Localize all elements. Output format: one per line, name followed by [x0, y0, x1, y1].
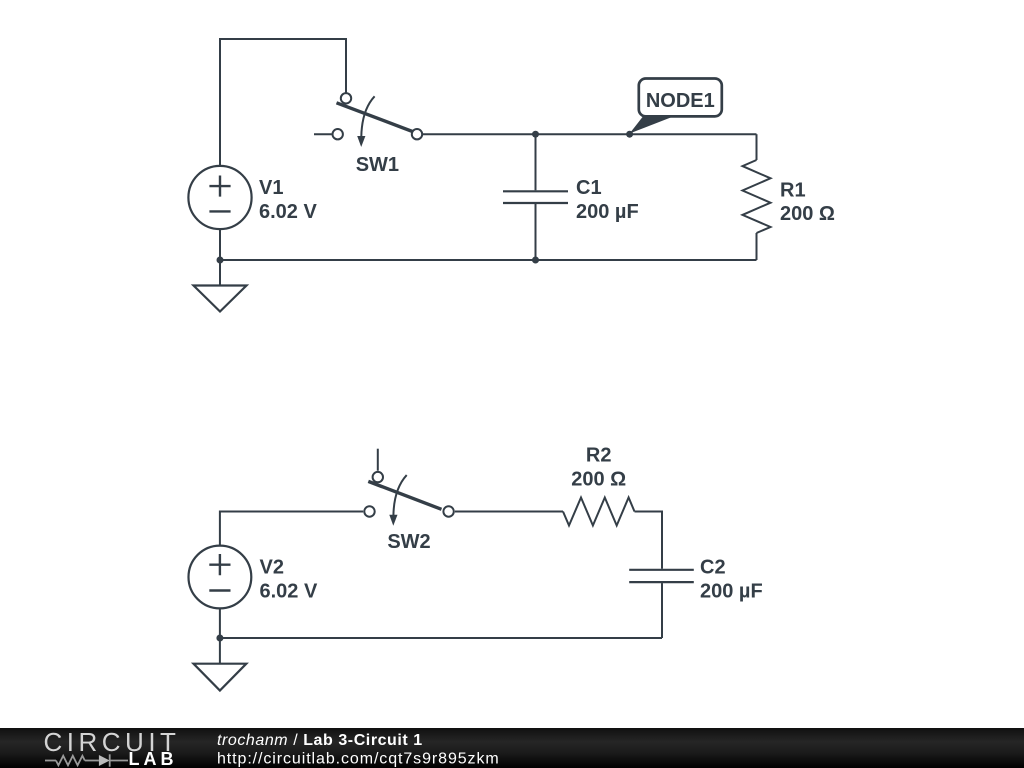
svg-text:http://circuitlab.com/cqt7s9r8: http://circuitlab.com/cqt7s9r895zkm	[217, 751, 500, 768]
switch SW2	[364, 472, 454, 526]
junction node at C1 top	[532, 131, 539, 138]
voltage source V1	[188, 166, 251, 229]
wire ground 2 lead	[219, 638, 221, 664]
wire C2 bottom lead	[661, 583, 663, 638]
resistor R2	[563, 498, 635, 526]
logo mini-circuit wire with resistor and diode	[45, 754, 128, 766]
junction node at V1 bottom	[217, 257, 224, 264]
wire SW1 pole to R1 top corner	[422, 133, 756, 135]
junction node at V2 bottom	[216, 635, 223, 642]
svg-text:LAB: LAB	[129, 749, 178, 768]
svg-text:trochanm / Lab 3-Circuit 1: trochanm / Lab 3-Circuit 1	[217, 732, 423, 749]
wire V2 top to SW2 left throw	[220, 512, 363, 546]
logo diode triangle	[99, 755, 110, 766]
capacitor C1	[503, 191, 568, 203]
wire bottom rail bottom circuit	[220, 608, 662, 638]
wire SW1 open-throw stub	[314, 133, 332, 135]
node label NODE1 callout	[630, 79, 722, 134]
resistor R1	[743, 160, 771, 233]
switch SW1	[333, 93, 423, 147]
junction node at C1 bottom	[532, 257, 539, 264]
wire ground 1 lead	[219, 260, 221, 286]
wire SW2 open-throw stub	[377, 449, 379, 471]
junction node NODE1	[626, 131, 633, 138]
wire R1 bottom lead	[756, 233, 758, 260]
wire R1 top lead	[756, 134, 758, 160]
ground 2	[194, 664, 247, 691]
capacitor C2	[629, 570, 694, 582]
wire R2 to C2 top lead	[635, 512, 663, 569]
wire C1 bottom lead	[535, 204, 537, 260]
wire C1 top lead	[535, 134, 537, 190]
voltage source V2	[189, 546, 252, 609]
wire bottom rail top circuit	[220, 229, 757, 260]
wire V1 top to SW1 top throw	[220, 39, 346, 166]
footer bar	[0, 728, 1024, 768]
wire SW2 pole to R2	[455, 511, 563, 513]
ground 1	[194, 286, 247, 312]
